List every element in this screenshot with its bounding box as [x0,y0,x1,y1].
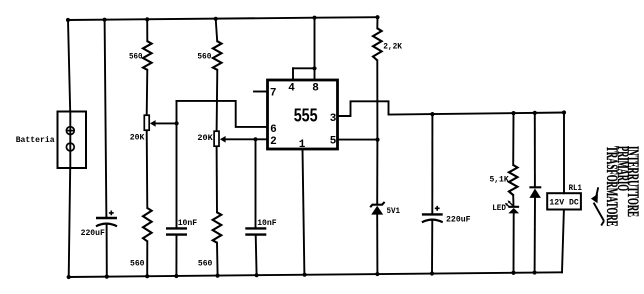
svg-text:3: 3 [330,113,337,125]
wire top rail to R5 [376,17,378,28]
wire node D to 220uF C2 [431,114,433,214]
wire pin 3 output run with hop [338,101,565,116]
svg-text:560: 560 [130,259,145,269]
zener diode D1 triangle [371,206,383,215]
wire R6 to LED [512,195,514,207]
wire battery column through box [69,112,71,169]
svg-text:TRASFORMATORE: TRASFORMATORE [603,146,620,227]
wire node C to zener D1 [376,140,378,204]
svg-text:220uF: 220uF [446,215,471,225]
node top rail battery [66,18,70,22]
op-amp U1 555 timer box [268,80,338,149]
svg-text:220uF: 220uF [81,228,105,238]
wire battery column bottom [69,168,71,277]
wire R1 to P1 [146,70,149,115]
wire 220uF C1 column bottom [106,224,108,277]
wire pin 4 to pin 8 bracket [293,67,315,69]
diode D2 cathode bar [529,186,541,188]
svg-text:4: 4 [288,83,295,95]
node top rail pin8 [312,16,316,20]
wire column R1 top [146,19,148,41]
svg-text:5,1K: 5,1K [490,174,510,184]
node ground C1 [105,275,109,279]
svg-text:560: 560 [197,52,211,62]
svg-text:1: 1 [299,139,306,151]
capacitor C1 220uF curved plate [96,224,117,227]
node ground D1 [375,272,379,276]
potentiometer P1 wiper arrow [150,120,156,127]
capacitor C3 10nF plates [166,228,187,234]
node ground LED [511,271,515,275]
wire relay RL1 to ground rail [562,210,564,273]
node top rail R5 [375,15,379,19]
node top rail C1 [103,18,107,22]
wire P1 to R3 [146,130,149,208]
capacitor C2 plus sign [435,206,440,211]
svg-text:6: 6 [270,124,277,136]
relay RL1 coil box [547,193,581,209]
svg-text:5: 5 [330,135,337,147]
wire node A vertical to C3 [176,101,178,228]
svg-text:560: 560 [198,259,213,269]
wire LED to ground rail [513,213,515,272]
node B wiper P2 [253,137,257,141]
resistor R4 560 [213,212,222,242]
switch SW1 blade [594,203,604,221]
capacitor C2 220uF curved plate [422,220,443,223]
resistor R2 560 [213,41,222,70]
switch SW1 lower tail [601,221,604,226]
wire node F to diode D2 [534,113,536,187]
capacitor C1 plus sign [109,211,114,216]
node E output R6 [511,111,515,115]
svg-text:7: 7 [270,88,277,100]
node ground C2 [430,271,434,275]
node F output D2 [533,111,537,115]
node D output C2 [430,112,434,116]
resistor R6 5,1K [509,165,518,195]
node bracket pin4 pin8 [312,66,316,70]
svg-text:560: 560 [129,52,143,62]
potentiometer P2 20K body [214,131,219,146]
wire pin 8 to top rail [314,18,316,80]
battery B1 minus terminal [66,143,74,151]
node A wiper P1 [175,121,179,125]
wire node B vertical to C4 [255,139,257,228]
node C pin5 [375,138,379,142]
node ground pin1 [303,273,307,277]
svg-text:LED: LED [492,203,506,213]
wire P2 to R4 [216,146,218,212]
wire C2 to ground rail [431,220,433,274]
node top rail R2 [214,17,218,21]
capacitor C4 10nF plates [245,228,266,234]
svg-text:2: 2 [270,136,277,148]
wire R5 to node C [376,60,378,139]
potentiometer P2 wiper arrow [220,136,226,143]
wire C3 to ground rail [175,235,177,276]
wire R2 to P2 [216,70,219,131]
wire R3 to ground rail [146,241,148,276]
capacitor C2 220uF top plate [422,213,443,215]
resistor R1 560 [143,41,152,70]
wire P1 wiper to node [155,122,177,124]
switch SW1 actuation arrow [591,194,598,203]
svg-text:8: 8 [312,83,319,95]
wire zener D1 to ground rail [376,215,378,274]
svg-text:555: 555 [294,105,318,125]
zener diode D1 5V1 cathode bar [370,202,384,207]
node ground R3 [145,274,149,278]
svg-text:10nF: 10nF [257,218,277,228]
wire P2 wiper to pin 2 [225,138,268,140]
node ground R4 [216,274,220,278]
LED D3 cathode bar [508,206,519,208]
capacitor C1 220uF top plate [96,217,117,219]
wire battery column top [68,20,70,112]
svg-text:RL1: RL1 [569,183,582,193]
wire pin 5 to node C [338,139,378,141]
wire pin 4 stub [292,68,294,80]
wire node A up run to pin 6 [177,101,268,127]
node G output relay [562,110,566,114]
LED D3 triangle [508,208,519,213]
svg-text:2,2K: 2,2K [383,42,403,52]
svg-text:10nF: 10nF [178,218,198,228]
wire diode D2 to ground rail [534,198,536,273]
diode D2 triangle [529,189,541,198]
node ground battery [67,275,71,279]
wire R4 to ground rail [216,243,219,276]
svg-text:20K: 20K [130,132,146,142]
wire pin 7 stub [254,91,268,93]
wire 220uF C1 column top [105,20,107,218]
node ground D2 [533,270,537,274]
wire top supply rail [68,17,378,20]
svg-text:20K: 20K [197,133,213,143]
battery B1 plus terminal [66,127,74,135]
wire bottom ground rail [69,272,562,277]
node top rail R1 [145,17,149,21]
wire node G to relay RL1 [563,113,565,194]
battery B1 plus tick [67,130,74,132]
wire C4 to ground rail [255,235,258,275]
node ground C4 [255,273,259,277]
LED D3 emission arrows [505,200,513,207]
svg-text:12V DC: 12V DC [549,198,578,208]
wire pin 1 to ground rail [303,149,305,275]
wire column R2 top [216,19,218,41]
battery B1 box [58,112,87,169]
svg-text:5V1: 5V1 [387,206,401,216]
potentiometer P1 20K body [144,115,149,130]
resistor R3 560 [143,208,152,241]
switch SW1 upper lead [596,187,598,196]
wire node E to R6 [512,113,514,165]
node ground C3 [174,274,178,278]
svg-text:Batteria: Batteria [16,135,55,145]
resistor R5 2,2K [373,28,382,60]
